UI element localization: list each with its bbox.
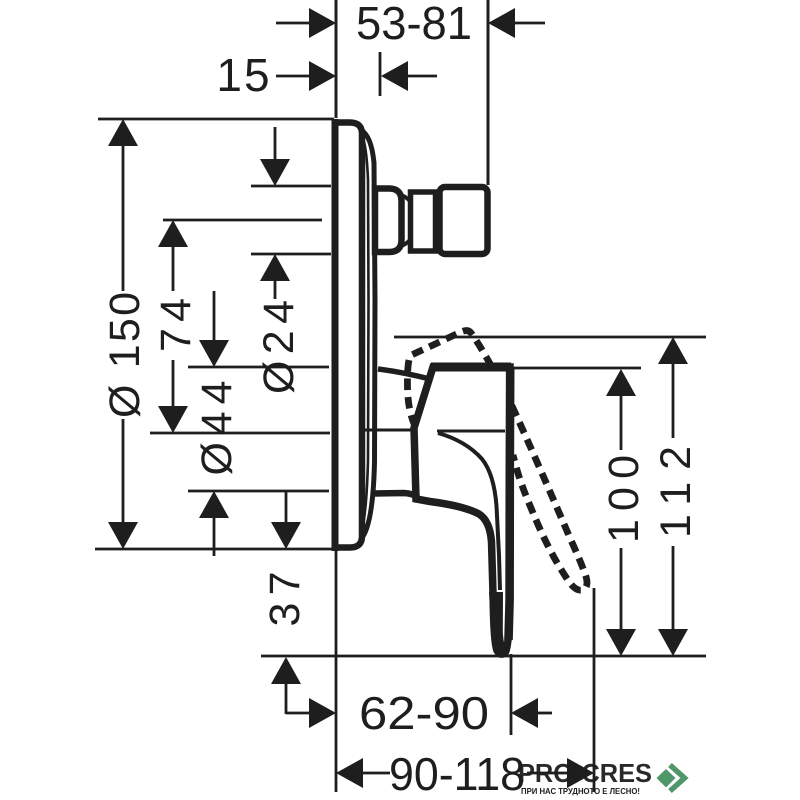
ref line D44 top (y=367) bbox=[188, 366, 329, 369]
dim 112 line x=673 bbox=[672, 363, 675, 438]
dashed handle upper bbox=[407, 331, 587, 591]
dim 53-81 arrow right bbox=[488, 8, 515, 38]
ref line 74 bottom (y=433) bbox=[150, 432, 330, 435]
dim 74 arrow bottom bbox=[158, 406, 188, 433]
dim 90-118 arrow left bbox=[336, 758, 363, 788]
dim D44 arrow top bbox=[199, 340, 229, 367]
dim 100 arrow top bbox=[606, 369, 636, 396]
ref line y=368 right (solid handle top) bbox=[510, 367, 641, 370]
spout end box bbox=[440, 187, 488, 254]
dim 15 shaft left bbox=[276, 75, 310, 78]
dim D24 arrow bottom bbox=[260, 254, 290, 281]
svg-text:53-81: 53-81 bbox=[356, 0, 472, 49]
dim D44 shaft top bbox=[213, 291, 216, 341]
ref line y=656 (handle tip) bbox=[261, 655, 706, 658]
ref line D24 bottom (y=254) bbox=[251, 253, 331, 256]
dim 37 arrow bottom bbox=[271, 657, 301, 684]
extension line top-right (x=488) bbox=[487, 0, 490, 185]
svg-text:15: 15 bbox=[216, 49, 271, 101]
dim 90-118 shaft left bbox=[362, 772, 390, 775]
ref line D44 bottom (y=491) bbox=[188, 490, 329, 493]
dim 112 arrow top bbox=[658, 337, 688, 364]
handle hub top line bbox=[362, 429, 412, 432]
svg-text:112: 112 bbox=[652, 446, 700, 538]
handle hub top arc bbox=[378, 369, 430, 379]
dim 100 line x=621 bbox=[620, 395, 623, 450]
dim 53-81 shaft left bbox=[276, 22, 310, 25]
extension line x=511 (lever edge) bbox=[510, 654, 513, 735]
ref line y=337 (dashed handle top) bbox=[394, 336, 706, 339]
ref line plate bottom (y=549) bbox=[95, 548, 334, 551]
dim 90-118 arrow right bbox=[567, 758, 594, 788]
dim D150 line x=123 bbox=[122, 146, 125, 291]
dim D150 arrow top bbox=[108, 119, 138, 146]
dim 15 arrow right bbox=[381, 61, 408, 91]
svg-text:PRO-CRES: PRO-CRES bbox=[518, 758, 652, 788]
ref line plate top (y=119) bbox=[98, 118, 334, 121]
lever top edge bbox=[431, 363, 511, 372]
dim 15 shaft right bbox=[408, 75, 437, 78]
spout mid cylinder bbox=[411, 192, 436, 251]
dim D44 shaft bottom bbox=[213, 518, 216, 556]
dim 62-90 shaft right bbox=[538, 712, 552, 715]
lever right edge bbox=[509, 367, 511, 640]
dim 37 shaft bottom bbox=[285, 684, 288, 714]
dim 15 tick (plate back, x=380) bbox=[379, 52, 382, 96]
dim 90-118 shaft right bbox=[527, 772, 568, 775]
dim 15 arrow left bbox=[309, 61, 336, 91]
dim 53-81 shaft right bbox=[515, 22, 545, 25]
dim 53-81 arrow left bbox=[309, 8, 336, 38]
dim 74 line x=173 bbox=[172, 247, 175, 291]
escutcheon plate face bbox=[335, 123, 362, 548]
extension line x=594 (dashed tip) bbox=[593, 588, 596, 792]
watermark green chevron bbox=[670, 765, 685, 791]
svg-text:Ø44: Ø44 bbox=[193, 381, 241, 476]
watermark PRO-CRES bbox=[518, 758, 685, 796]
svg-text:Ø24: Ø24 bbox=[255, 300, 303, 394]
dim 62-90 arrow right bbox=[511, 698, 538, 728]
dim 62-90 arrow left bbox=[309, 698, 336, 728]
dim D44 arrow bottom bbox=[199, 491, 229, 518]
dim D24 shaft bottom bbox=[274, 281, 277, 299]
dim 37 shaft top bbox=[285, 491, 288, 522]
dim D24 arrow top bbox=[260, 159, 290, 186]
lever inner curve bbox=[438, 433, 500, 590]
svg-text:62-90: 62-90 bbox=[359, 687, 489, 739]
svg-text:ПРИ НАС ТРУДНОТО Е ЛЕСНО!: ПРИ НАС ТРУДНОТО Е ЛЕСНО! bbox=[521, 787, 640, 796]
dim D24 shaft top bbox=[274, 127, 277, 160]
spout taper bbox=[399, 194, 410, 201]
dim D150 arrow bottom bbox=[108, 522, 138, 549]
dim 100 arrow bottom bbox=[606, 629, 636, 656]
plate back rim inner line bbox=[360, 134, 369, 536]
extension line x=336 bottom bbox=[335, 551, 338, 792]
dim 112 arrow bottom bbox=[658, 629, 688, 656]
svg-text:90-118: 90-118 bbox=[389, 748, 525, 800]
lever seam bbox=[437, 430, 505, 433]
lever solid outline bbox=[414, 367, 510, 654]
plate left edge bbox=[332, 119, 339, 551]
ref line D24 top (y=186) bbox=[251, 185, 331, 188]
lever tip fill bbox=[489, 592, 507, 652]
svg-text:Ø 150: Ø 150 bbox=[101, 292, 149, 418]
plate back rim bbox=[361, 130, 375, 539]
dim 74 arrow top bbox=[158, 220, 188, 247]
ref line 74 top (y=220) bbox=[163, 219, 322, 222]
svg-text:100: 100 bbox=[600, 455, 648, 543]
handle hub bottom bbox=[375, 493, 418, 498]
spout neck bbox=[375, 189, 402, 253]
dim 37 arrow top bbox=[271, 522, 301, 549]
watermark green diamond bbox=[657, 769, 676, 788]
extension line top-left (plate front, x=336) bbox=[335, 0, 338, 118]
